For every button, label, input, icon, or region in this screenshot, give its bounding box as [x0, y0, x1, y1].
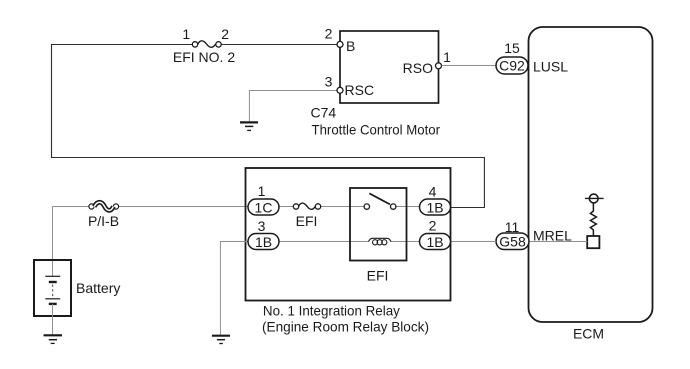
svg-text:1B: 1B	[255, 234, 272, 250]
wire relay row2: coil to pin 2	[391, 241, 420, 243]
wire relay row1: contact to pin 4	[396, 206, 420, 208]
relay pin 3 connector 1B	[248, 218, 279, 250]
svg-text:C74: C74	[311, 105, 337, 121]
resistor inside ECM	[590, 203, 596, 236]
wire relay row2: pin 3 to coil	[279, 241, 369, 243]
svg-text:1: 1	[443, 49, 451, 65]
wire battery-negative down (x=53)	[52, 304, 54, 335]
relay pin 1 connector 1C	[248, 183, 279, 215]
svg-text:Battery: Battery	[76, 280, 120, 296]
wire relay row2: ground wire to pin 3	[220, 241, 248, 243]
svg-text:3: 3	[258, 218, 266, 234]
svg-text:1B: 1B	[426, 199, 443, 215]
wire relay row1: fuse to contact box	[321, 206, 364, 208]
ground below battery	[44, 335, 63, 343]
ECM box	[529, 27, 653, 342]
svg-text:1: 1	[182, 26, 190, 42]
wire relay row1: 1C to fuse	[279, 206, 293, 208]
svg-text:2: 2	[325, 26, 333, 42]
svg-text:LUSL: LUSL	[533, 59, 568, 75]
wire dark net: relay pin 4 to vertical (y=207)	[451, 207, 485, 209]
wire fusible link to relay pin 1C (y=207)	[119, 206, 248, 208]
svg-text:2: 2	[221, 26, 229, 42]
svg-text:4: 4	[429, 184, 437, 200]
svg-text:1B: 1B	[426, 234, 443, 250]
svg-text:EFI: EFI	[296, 213, 318, 229]
battery B1	[34, 260, 120, 316]
wire battery vertical (x=53)	[52, 207, 54, 277]
fuse EFI inside relay	[293, 203, 320, 229]
svg-text:(Engine Room Relay Block): (Engine Room Relay Block)	[262, 319, 429, 335]
wire dark net: fuse to motor pin B (y=44)	[221, 44, 337, 46]
ground for RSC	[240, 122, 258, 130]
pin 1 RSO of motor	[403, 49, 451, 76]
wire relay pin 2 to G58 (y=241.5)	[451, 241, 497, 243]
svg-text:MREL: MREL	[533, 227, 572, 243]
wire dark net: fuse to left vertical (y=44)	[51, 44, 192, 46]
svg-text:15: 15	[504, 40, 520, 56]
connector C92 pin 15 LUSL	[496, 40, 568, 75]
svg-text:11: 11	[505, 219, 520, 235]
MREL driver square pin symbol	[587, 236, 599, 248]
power symbol inside ECM	[585, 194, 604, 203]
wire G58 to square (y=241.5)	[529, 241, 587, 243]
pin 2 B of motor	[325, 26, 356, 55]
pin 3 RSC of motor	[325, 74, 374, 99]
svg-text:ECM: ECM	[573, 326, 604, 342]
wire RSC to ground (y=90)	[249, 90, 337, 92]
svg-text:B: B	[346, 38, 355, 54]
relay pin 4 connector 1B	[420, 184, 451, 216]
relay coil EFI	[367, 238, 391, 283]
wire dark net: left vertical (x=51)	[51, 44, 53, 158]
wire dark net: right vertical (x=484)	[483, 157, 485, 208]
svg-text:1C: 1C	[255, 199, 273, 215]
wire battery-positive to fusible link (y=207)	[53, 206, 89, 208]
svg-text:Throttle Control Motor: Throttle Control Motor	[312, 122, 441, 138]
relay outer box	[246, 168, 451, 335]
relay pin 2 connector 1B	[420, 218, 451, 250]
relay contact points	[364, 204, 396, 209]
fuse EFI NO. 2	[173, 26, 235, 65]
wire relay ground vertical (x=220)	[219, 242, 221, 336]
svg-text:EFI NO. 2: EFI NO. 2	[173, 49, 235, 65]
svg-text:EFI: EFI	[367, 267, 389, 283]
connector G58 pin 11 MREL	[496, 219, 572, 250]
throttle control motor C74 box	[311, 31, 441, 138]
svg-text:G58: G58	[499, 233, 526, 249]
svg-text:RSO: RSO	[403, 60, 433, 76]
svg-text:No. 1 Integration Relay: No. 1 Integration Relay	[263, 303, 400, 319]
svg-text:1: 1	[258, 183, 266, 199]
svg-text:RSC: RSC	[345, 82, 375, 98]
svg-text:P/I-B: P/I-B	[88, 213, 119, 229]
svg-text:2: 2	[429, 218, 437, 234]
relay switch blade	[369, 193, 390, 204]
wire RSC ground stem (x=249)	[248, 90, 250, 122]
wire dark net: long horizontal (y=157.5)	[51, 157, 485, 159]
ground for relay coil	[212, 336, 230, 344]
svg-text:C92: C92	[499, 58, 525, 74]
wire RSO to C92 (y=66)	[442, 65, 497, 67]
fusible link P/I-B	[88, 202, 119, 229]
relay inner contact/coil box	[350, 188, 407, 261]
svg-text:3: 3	[325, 74, 333, 90]
